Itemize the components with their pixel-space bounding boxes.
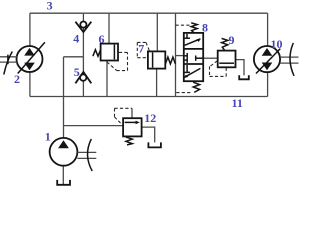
svg-text:1: 1	[45, 130, 51, 144]
wire valve 8 left port stub	[176, 55, 184, 57]
valve 8 body	[184, 33, 203, 81]
valve 8 top spring	[191, 23, 197, 33]
pilot dash valve 8 bottom	[176, 92, 191, 94]
wire check valve 4/5 vertical line	[82, 13, 84, 96]
valve 9 body	[218, 51, 236, 68]
wire motor 10 top riser	[267, 13, 269, 46]
svg-text:12: 12	[144, 111, 156, 125]
wire valve 8 feed line	[175, 13, 177, 96]
tank of valve 12	[148, 142, 161, 147]
wire supply line to valve 12	[64, 125, 124, 127]
pump 1	[50, 138, 78, 166]
valve 12 spring	[126, 137, 132, 145]
wire valve 7 upper line	[156, 13, 158, 51]
pump 1 shaft	[77, 151, 96, 153]
valve 8 cell3 symbols	[186, 65, 188, 72]
check valve 5	[80, 74, 86, 80]
wire stub above valve 12	[131, 108, 133, 118]
tank of pump 1	[57, 180, 70, 185]
pilot dash valve 8 top	[176, 24, 190, 26]
pilot dashes of valve 6	[107, 62, 117, 70]
valve 8 bottom spring	[193, 82, 199, 92]
valve 9 spring	[222, 38, 228, 50]
valve 12 body	[123, 118, 142, 136]
pump 2	[17, 46, 43, 72]
wire valve 6 upper line	[108, 13, 110, 43]
svg-text:9: 9	[229, 33, 235, 47]
svg-text:8: 8	[202, 20, 208, 34]
wire left drop to pump 2	[29, 13, 31, 46]
svg-text:10: 10	[271, 37, 283, 51]
svg-text:6: 6	[99, 32, 105, 46]
wire valve 7 lower line	[156, 69, 158, 97]
wire motor 10 bottom riser	[267, 72, 269, 96]
tank of valve 9	[239, 75, 249, 79]
wire valve 6 lower line	[106, 60, 108, 96]
valve 8 cell2 symbols	[186, 53, 188, 63]
svg-text:7: 7	[138, 41, 144, 55]
wire valve 12 to tank	[142, 127, 155, 142]
wire bottom bus line 11	[30, 96, 268, 98]
svg-text:3: 3	[47, 0, 53, 12]
pilot dashes of valve 9	[210, 61, 217, 67]
motor 10 shaft	[280, 56, 298, 58]
pilot dashes of valve 12	[115, 107, 133, 109]
valve 7 spring	[165, 57, 175, 64]
wire pump 1 to tank	[62, 166, 64, 185]
wire valve 9 to tank	[235, 60, 244, 76]
motor 10	[254, 46, 280, 72]
valve 6 body	[101, 44, 118, 61]
pilot dashes of valve 7	[137, 41, 146, 43]
svg-text:11: 11	[232, 96, 243, 110]
svg-text:2: 2	[14, 72, 20, 86]
wire branch to pump 1 column	[64, 56, 84, 58]
valve 6 spring	[93, 50, 101, 57]
wire valve 8 to valve 9	[203, 57, 218, 59]
valve 8 cell1 symbols	[186, 34, 188, 38]
wire top bus line 3	[30, 12, 268, 14]
svg-text:5: 5	[74, 65, 80, 79]
pump 2 shaft	[0, 56, 17, 58]
check valve 4	[80, 22, 86, 28]
wire pump 1 column	[63, 57, 65, 138]
valve 7 body	[148, 51, 165, 68]
svg-text:4: 4	[73, 31, 79, 45]
wire pump 2 bottom riser	[29, 72, 31, 97]
